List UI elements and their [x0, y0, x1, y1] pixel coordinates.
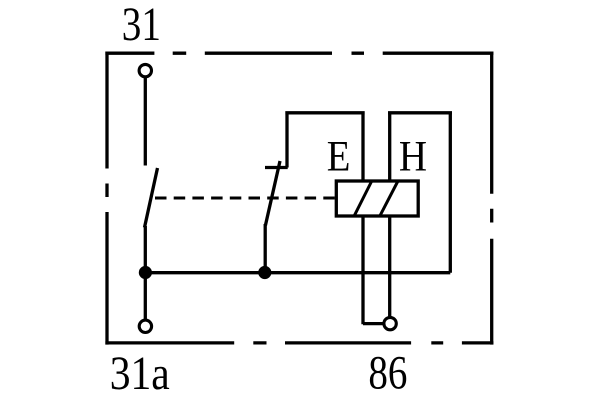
wire bus from node A to node C: [145, 271, 450, 274]
svg-text:31a: 31a: [110, 346, 170, 399]
junction node B dot: [258, 266, 271, 279]
switch S2 fixed contact tick: [265, 166, 288, 169]
thermal element (hatched box): [336, 181, 418, 216]
svg-text:E: E: [327, 131, 351, 180]
switch S2 arm: [265, 161, 280, 226]
enclosure border left (dash-dot): [105, 52, 108, 345]
wire from terminal 31 down to switch S1: [144, 78, 147, 166]
wire from switch S1 to node A: [144, 226, 147, 320]
wire from element left lead down to terminal 86: [363, 216, 384, 324]
junction node A dot: [139, 266, 152, 279]
enclosure border bottom (dash-dot): [105, 341, 493, 344]
switch S1 arm: [145, 168, 158, 228]
svg-text:86: 86: [368, 347, 407, 399]
dashed actuation linkage: [155, 197, 335, 200]
terminal 31a circle: [139, 320, 151, 332]
wire E-loop: left side up, top across, right side down to element: [285, 113, 364, 181]
svg-text:31: 31: [122, 0, 161, 51]
terminal 31 circle: [139, 64, 151, 76]
wire from element right lead down to terminal 86: [388, 216, 391, 318]
enclosure border right (dash-dot): [490, 52, 493, 345]
enclosure border top (dash-dot): [105, 52, 493, 55]
terminal 86 circle: [384, 317, 396, 329]
wire from switch S2 down to node B: [264, 224, 267, 272]
wire H-loop: left side up, top across, right side down to bus: [388, 113, 452, 273]
svg-text:H: H: [399, 131, 427, 179]
